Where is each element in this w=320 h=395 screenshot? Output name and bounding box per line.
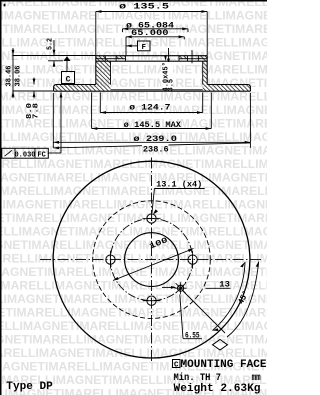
svg-text:6.55: 6.55 [185, 332, 200, 341]
svg-text:MAGNETIMARELLIMAGNETIMARELLIMA: MAGNETIMARELLIMAGNETIMARELLIMAGNETIMAREL… [0, 346, 267, 360]
svg-text:238.6: 238.6 [143, 146, 169, 155]
svg-text:7.8: 7.8 [32, 103, 40, 119]
svg-text:MAGNETIMARELLIMAGNETIMARELLIMA: MAGNETIMARELLIMAGNETIMARELLIMAGNETIMAREL… [0, 198, 267, 212]
svg-text:C: C [174, 362, 179, 370]
svg-text:MAGNETIMARELLIMAGNETIMARELLIMA: MAGNETIMARELLIMAGNETIMARELLIMAGNETIMAREL… [0, 319, 267, 333]
svg-text:MOUNTING FACE: MOUNTING FACE [181, 359, 267, 371]
svg-text:MAGNETIMARELLIMAGNETIMARELLIMA: MAGNETIMARELLIMAGNETIMARELLIMAGNETIMAREL… [0, 252, 267, 266]
svg-text:0.030: 0.030 [14, 152, 35, 160]
svg-text:ø 124.7: ø 124.7 [129, 103, 170, 112]
svg-text:FC: FC [37, 152, 45, 160]
svg-text:Type DP: Type DP [6, 381, 53, 393]
svg-text:Weight 2.63Kg: Weight 2.63Kg [174, 383, 261, 395]
svg-text:ø 135.5: ø 135.5 [119, 3, 169, 12]
svg-text:MAGNETIMARELLIMAGNETIMARELLIMA: MAGNETIMARELLIMAGNETIMARELLIMAGNETIMAREL… [0, 211, 267, 225]
svg-text:C: C [66, 75, 71, 84]
svg-text:3.5: 3.5 [168, 79, 176, 92]
svg-text:38.06: 38.06 [14, 65, 22, 86]
svg-text:13: 13 [219, 281, 230, 290]
svg-text:MAGNETIMARELLIMAGNETIMARELLIMA: MAGNETIMARELLIMAGNETIMARELLIMAGNETIMAREL… [0, 63, 267, 77]
svg-text:MAGNETIMARELLIMAGNETIMARELLIMA: MAGNETIMARELLIMAGNETIMARELLIMAGNETIMAREL… [0, 306, 267, 320]
svg-text:ø 239.0: ø 239.0 [133, 135, 177, 144]
svg-text:38.46: 38.46 [6, 65, 14, 86]
svg-text:F: F [142, 44, 147, 52]
svg-text:5.2: 5.2 [47, 38, 55, 50]
svg-text:MAGNETIMARELLIMAGNETIMARELLIMA: MAGNETIMARELLIMAGNETIMARELLIMAGNETIMAREL… [0, 292, 267, 306]
svg-text:MAGNETIMARELLIMAGNETIMARELLIMA: MAGNETIMARELLIMAGNETIMARELLIMAGNETIMAREL… [0, 171, 267, 185]
svg-text:MAGNETIMARELLIMAGNETIMARELLIMA: MAGNETIMARELLIMAGNETIMARELLIMAGNETIMAREL… [0, 225, 267, 239]
svg-text:ø 145.5 MAX: ø 145.5 MAX [124, 121, 182, 130]
svg-text:65.000: 65.000 [131, 29, 169, 38]
svg-text:13.1 (x4): 13.1 (x4) [156, 181, 202, 190]
